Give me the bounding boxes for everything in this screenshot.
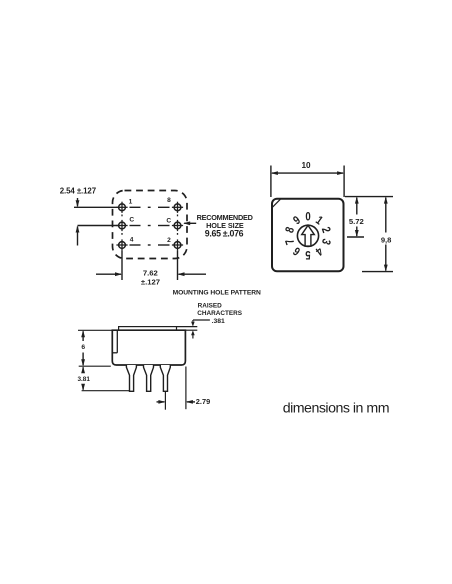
dimension arrow up (2.54 bottom): [76, 226, 80, 246]
body right edge extension line: [185, 367, 187, 410]
10 dimension line with arrows: [271, 171, 344, 175]
chamfer corner mark: [273, 199, 281, 207]
rotor circle: [297, 225, 318, 246]
2.79 right arrow: [186, 400, 195, 404]
mounting hole pattern caption: [173, 290, 261, 297]
2.79 dimension text: [196, 397, 210, 406]
center line row C: [130, 225, 170, 227]
9,8 dimension: [381, 197, 392, 272]
extension line down from hole 2: [177, 251, 179, 280]
svg-text:RAISED: RAISED: [198, 302, 223, 309]
svg-text:2: 2: [167, 237, 171, 244]
hole 4: [116, 239, 127, 250]
center line row bottom: [130, 244, 170, 246]
svg-text:MOUNTING HOLE PATTERN: MOUNTING HOLE PATTERN: [173, 290, 261, 297]
svg-text:±.127: ±.127: [141, 277, 160, 286]
center line row 1: [130, 206, 170, 208]
dashed body outline (mounting pattern): [113, 191, 188, 259]
body top extension line: [185, 329, 197, 331]
7.62 dimension text: [141, 268, 160, 286]
raised characters leader and arrows: [191, 320, 210, 339]
dimension arrow down (2.54 top): [76, 198, 80, 207]
svg-text:9,8: 9,8: [381, 235, 392, 244]
svg-text:2.79: 2.79: [196, 397, 210, 406]
svg-text:9.65 ±.076: 9.65 ±.076: [205, 228, 244, 238]
svg-text:10: 10: [301, 161, 311, 170]
pin label 4: [130, 237, 134, 244]
svg-text:4: 4: [130, 237, 134, 244]
pin label C right: [166, 218, 171, 225]
leader arrow recommended hole size: [183, 221, 196, 225]
pin center extension line: [164, 391, 166, 409]
dimensions in mm caption: [283, 401, 389, 417]
pin right: [160, 365, 170, 391]
hole 8: [172, 202, 183, 213]
raised characters label: [197, 302, 242, 325]
svg-text:0: 0: [305, 211, 310, 224]
svg-text:8: 8: [167, 197, 171, 204]
extension line bottom right (9,8): [362, 271, 393, 273]
hole 1: [116, 202, 127, 213]
pin label 2: [167, 237, 171, 244]
pin label 1: [129, 198, 133, 205]
bottom extension line (pin tips): [82, 390, 130, 392]
rotor arrow: [302, 225, 315, 246]
svg-text:7.62: 7.62: [143, 268, 158, 277]
svg-text:5: 5: [305, 248, 310, 261]
pin label 8: [167, 197, 171, 204]
extension line down from hole 4: [121, 251, 123, 280]
extension line middle (5.72 bottom): [347, 236, 364, 238]
extension line row 2: [78, 225, 123, 227]
vertical center line dots: [122, 215, 178, 238]
svg-text:dimensions in mm: dimensions in mm: [283, 401, 389, 417]
svg-text:5.72: 5.72: [349, 217, 364, 226]
switch body top view: [272, 199, 344, 272]
pin left: [126, 365, 136, 391]
svg-text:3.81: 3.81: [77, 376, 90, 383]
side view raised plate: [119, 327, 177, 331]
extension line row 1: [74, 206, 122, 208]
svg-text:CHARACTERS: CHARACTERS: [197, 310, 242, 317]
svg-text:C: C: [129, 217, 134, 224]
pin label C left: [129, 217, 134, 224]
dial digits 0-9: [283, 211, 333, 261]
hole 2: [172, 239, 183, 250]
hole C left: [116, 220, 127, 231]
pin middle: [144, 365, 154, 391]
svg-text:C: C: [166, 218, 171, 225]
svg-text:.381: .381: [212, 318, 225, 325]
6 dimension: [81, 330, 85, 366]
extension line top right (9,8 / 5.72): [345, 196, 393, 198]
svg-text:2.54 ±.127: 2.54 ±.127: [60, 187, 97, 196]
5.72 dimension: [349, 197, 364, 237]
7.62 left arrow: [96, 272, 122, 276]
body left step line: [112, 330, 117, 353]
recommended hole size text: [197, 213, 253, 238]
plate top extension line: [177, 326, 198, 328]
2.79 left arrow: [157, 400, 166, 404]
6/3.81 middle extension line: [79, 365, 111, 367]
6 dimension extension top: [78, 329, 112, 331]
10 dimension text: [301, 161, 311, 170]
3.81 dimension: [77, 366, 90, 391]
svg-text:1: 1: [129, 198, 133, 205]
extension line right (10): [343, 166, 345, 198]
7.62 right arrow: [178, 272, 207, 276]
side view body: [112, 330, 185, 365]
hole C right: [172, 220, 183, 231]
extension line left (10): [270, 166, 272, 198]
label 2.54 dimension text: [60, 187, 97, 196]
svg-text:6: 6: [81, 344, 85, 351]
